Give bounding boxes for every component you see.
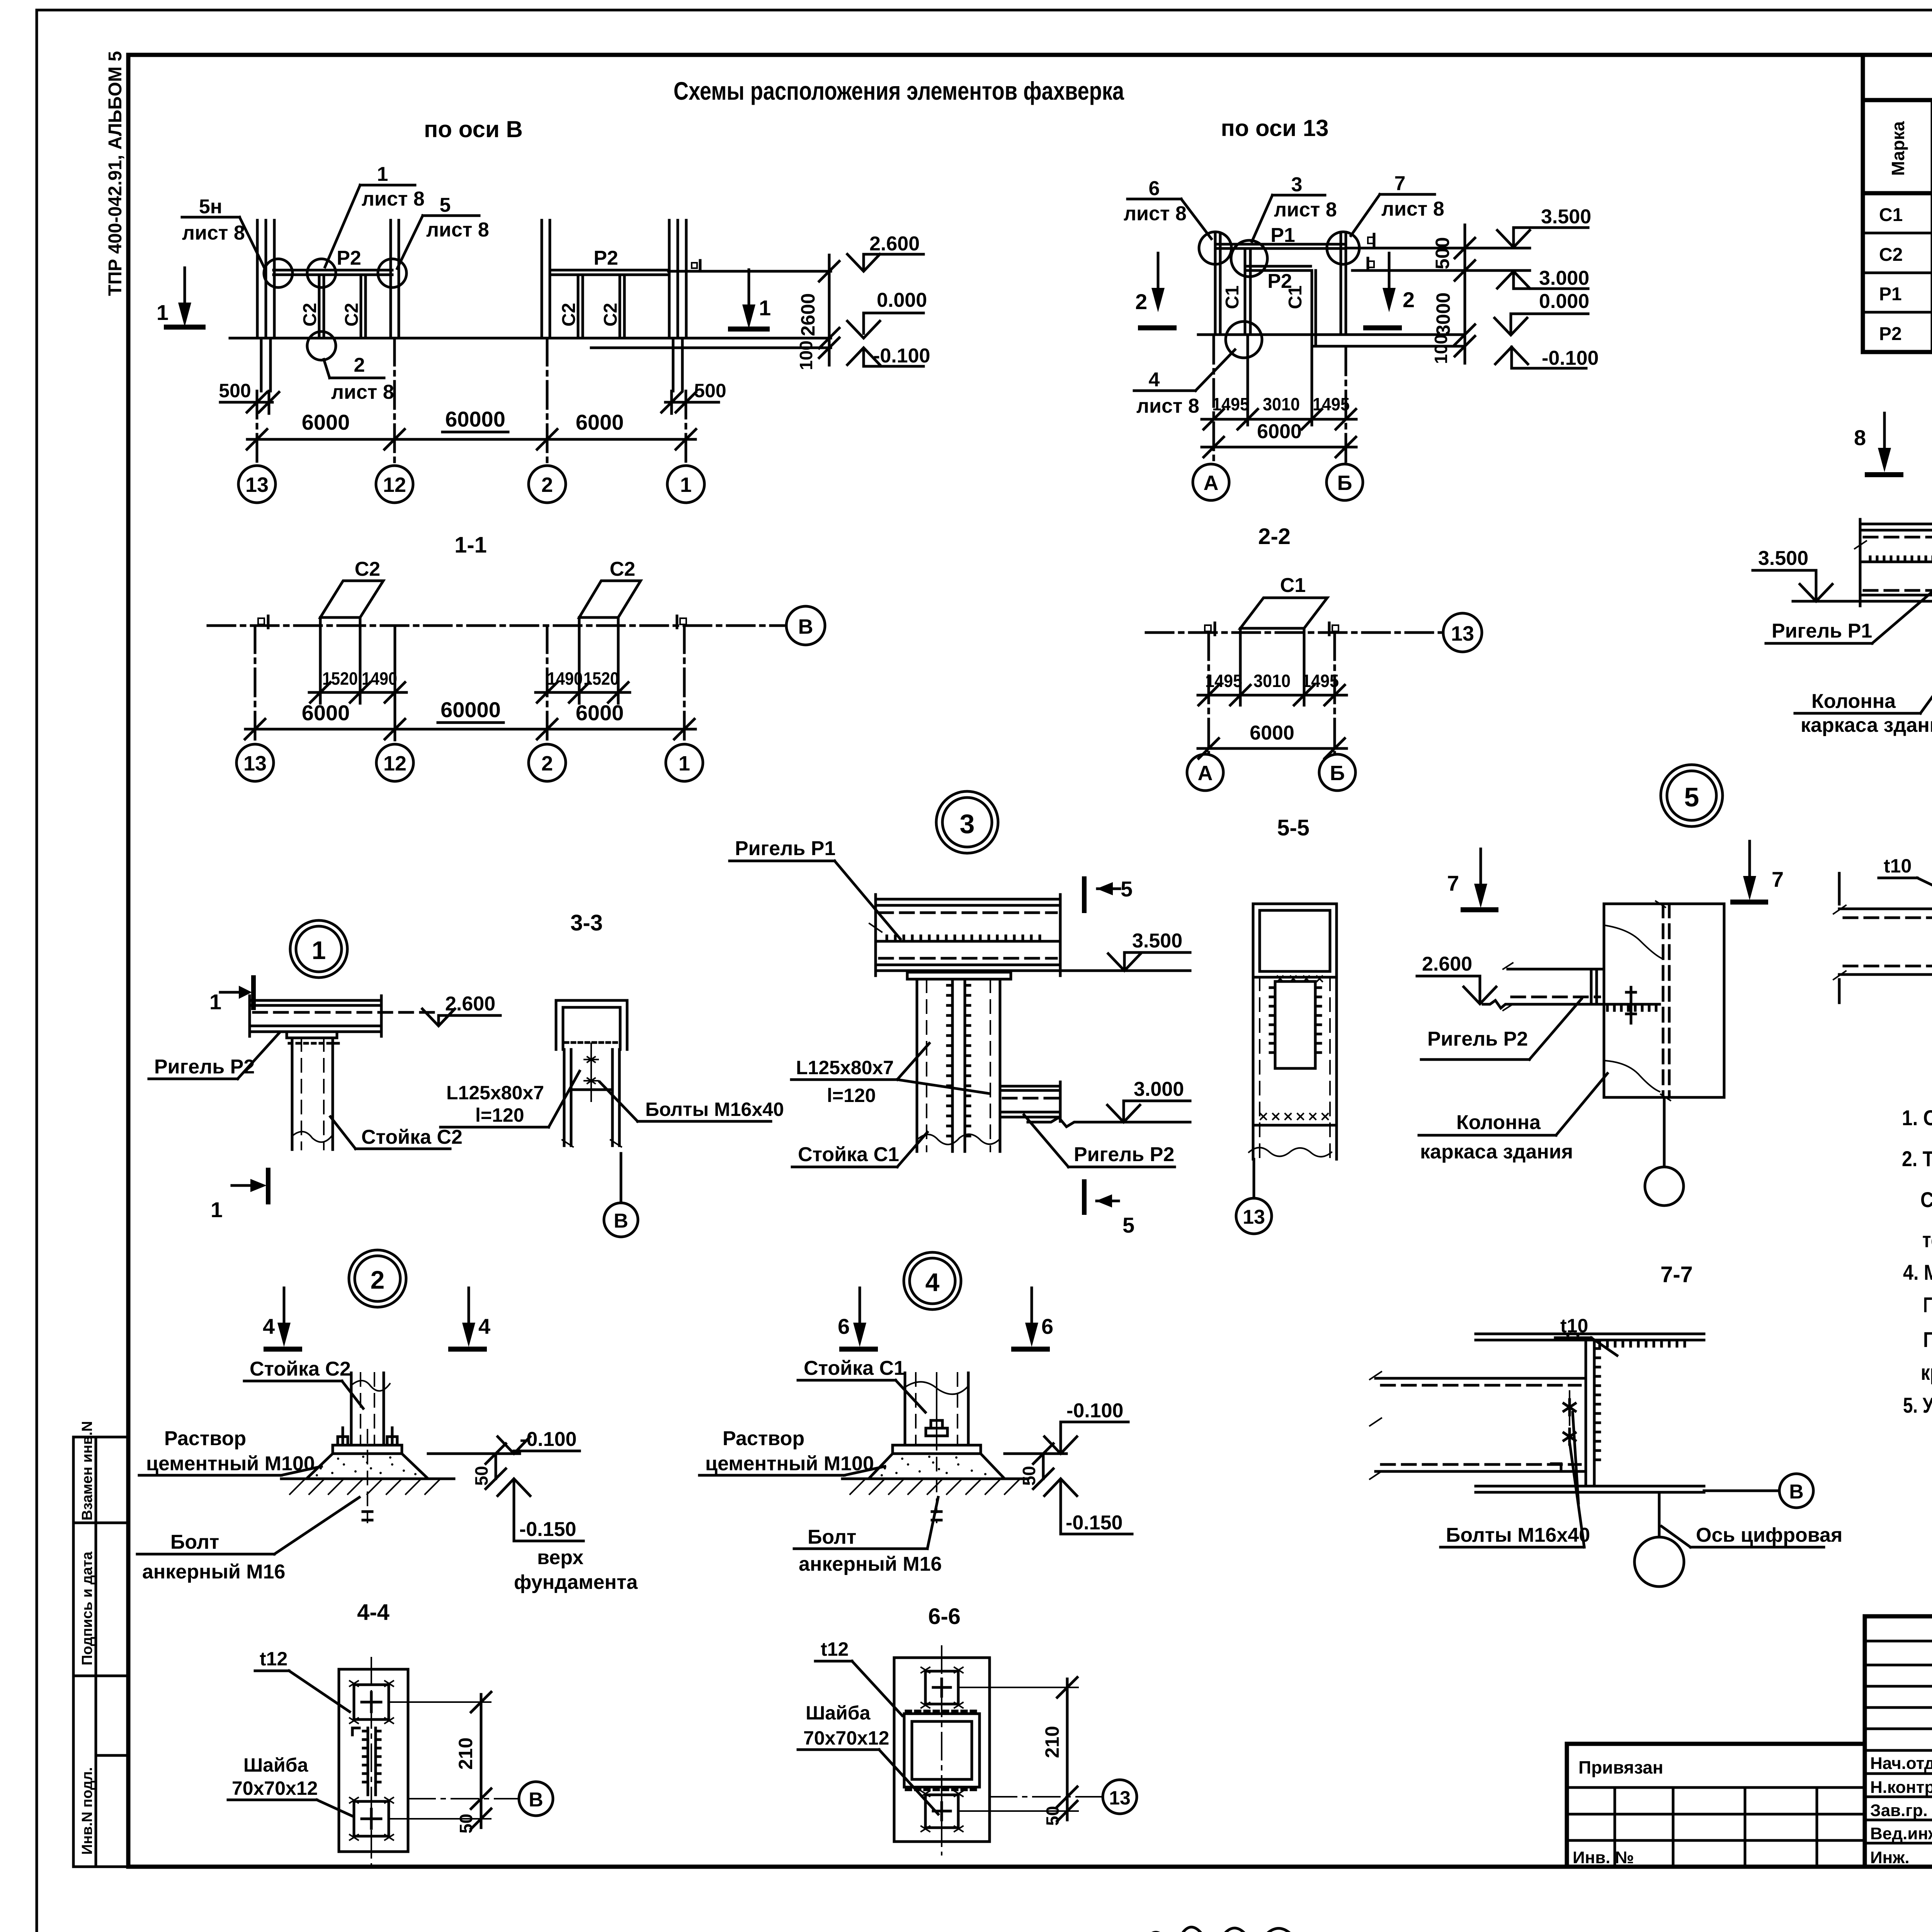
svg-text:Инв. №: Инв. № [1573,1848,1634,1867]
svg-text:4: 4 [1149,369,1160,391]
svg-text:50: 50 [456,1814,476,1833]
inner right post [1311,270,1313,345]
I post top flange [1476,1333,1704,1335]
section mark 5 bottom [1082,1179,1087,1215]
svg-text:70х70х12: 70х70х12 [803,1727,889,1749]
svg-text:13: 13 [1451,622,1474,645]
svg-text:Р2: Р2 [337,247,361,269]
svg-text:1: 1 [211,1197,223,1222]
svg-text:6000: 6000 [1250,722,1294,744]
level 3.500 line [1346,247,1530,250]
svg-text:12: 12 [383,473,406,497]
axis circle 13 [238,466,276,503]
vertical dims 500 3000 100 [1464,225,1466,363]
axis drop lines [1213,336,1215,464]
node circle 5 [1661,765,1723,827]
svg-text:лист 8: лист 8 [331,381,394,403]
svg-text:t12: t12 [260,1648,287,1670]
svg-text:5: 5 [440,194,451,216]
axis dashed drops [256,391,259,466]
svg-text:Стойка С1 и ригель Р1 выполняю: Стойка С1 и ригель Р1 выполняются сварко… [1920,1187,1932,1212]
left margin stamp box Inv.N podl. [73,1676,128,1867]
C2 parallelogram right [579,581,641,617]
svg-text:100: 100 [1431,334,1451,364]
axis circle 13 [1253,1159,1255,1198]
svg-text:лист 8: лист 8 [1136,395,1199,417]
svg-text:Р2: Р2 [1879,324,1902,344]
svg-text:Подпись и дата: Подпись и дата [79,1551,95,1665]
svg-text:Привязан: Привязан [1578,1757,1663,1777]
svg-text:60000: 60000 [440,697,501,722]
axis line [208,624,784,627]
post at axis B [1340,234,1342,335]
mortar pad [869,1454,1005,1479]
digital axis circle [1658,1492,1661,1536]
inner gusset box [1275,981,1315,1068]
ground line [1198,333,1465,336]
axis circle 1 [667,466,704,503]
axis line [1146,631,1440,634]
svg-text:7-7: 7-7 [1660,1262,1693,1287]
dim row 1495 3010 1495 [1198,694,1347,697]
left margin stamp box Podpis i data [73,1523,128,1676]
post at axis 13 [256,220,259,338]
washer top [925,1671,958,1704]
svg-text:1495: 1495 [1302,671,1339,691]
building column [1604,904,1724,1097]
post at axis 12 [389,220,392,338]
svg-text:Раствор: Раствор [164,1427,246,1450]
svg-text:4: 4 [263,1314,275,1338]
svg-text:толщиной 6 мм.Сварку производи: толщиной 6 мм.Сварку производить электро… [1922,1228,1932,1252]
svg-text:Болты М16х40: Болты М16х40 [1446,1524,1590,1546]
beam R2 stub right [1000,1085,1060,1088]
svg-text:Зав.гр.: Зав.гр. [1870,1801,1928,1820]
svg-text:2: 2 [541,473,553,497]
svg-text:3.000: 3.000 [1539,267,1589,289]
ground line 0.000 [230,337,831,340]
web plates below [563,1049,566,1146]
svg-text:5н: 5н [199,196,222,218]
svg-text:каркаса здания: каркаса здания [1420,1141,1573,1163]
dim row 6000 60000 6000 [245,728,696,731]
beam R1 [1860,523,1932,526]
svg-text:С1: С1 [1280,574,1306,597]
svg-text:5-5: 5-5 [1277,815,1310,840]
axis circle V [620,1153,622,1203]
minus line [1312,345,1465,348]
callout circle node 1 [307,259,336,287]
svg-text:3010: 3010 [1253,671,1291,691]
svg-text:Инв.N подл.: Инв.N подл. [79,1767,95,1855]
bottom weld x row [1260,1114,1328,1119]
extension lines [319,617,322,703]
channel beam from left [1376,1377,1586,1380]
svg-text:5: 5 [1121,877,1133,901]
weld combs [1600,1340,1685,1346]
beam R2 [1508,968,1604,971]
svg-text:Р1: Р1 [1270,224,1295,247]
svg-text:Ось цифровая: Ось цифровая [1696,1524,1842,1546]
svg-text:50: 50 [1043,1806,1063,1826]
C1 parallelogram [1240,598,1327,628]
stanchion C2 a [318,275,321,338]
svg-text:2: 2 [371,1265,385,1294]
svg-text:лист 8: лист 8 [1124,202,1187,225]
svg-text:цементный М100: цементный М100 [146,1452,315,1475]
callout circle 3 [1231,240,1267,277]
svg-text:Гайки М16 класса прочности 5 п: Гайки М16 класса прочности 5 по ГОСТ 175… [1923,1327,1932,1352]
section mark 1 bottom [266,1168,270,1204]
title block outer [1865,1616,1932,1867]
svg-text:7: 7 [1772,867,1784,891]
svg-text:6: 6 [1041,1314,1053,1338]
svg-text:L125х80х7: L125х80х7 [796,1057,894,1078]
weld comb under beam [1607,1004,1656,1010]
washer top [354,1685,389,1719]
svg-text:1495: 1495 [1205,671,1242,691]
dim row 1495 3010 1495 [1202,418,1356,421]
svg-text:В: В [614,1210,628,1232]
svg-text:Болты М16х40: Болты М16х40 [645,1099,784,1120]
dim row 6000 [1198,747,1347,750]
ground line with hatch [281,1478,454,1480]
extension lines [1239,628,1242,705]
beam P2 [1248,265,1311,268]
node circle 2 [349,1250,406,1307]
center axis [941,1646,942,1855]
svg-text:1: 1 [312,936,326,964]
svg-text:Нач.отд.: Нач.отд. [1870,1754,1932,1773]
svg-text:лист 8: лист 8 [1274,199,1337,221]
svg-text:-0.100: -0.100 [1066,1400,1123,1422]
section mark 5 top [1082,876,1087,913]
signature names [1870,1754,1932,1867]
end post symbol right [680,618,686,624]
bolts [1569,1391,1570,1454]
axis circle 12 [376,744,413,781]
anchor bolts nuts [338,1437,348,1445]
left grid rows [1865,1640,1932,1643]
svg-text:3.500: 3.500 [1132,930,1182,952]
svg-text:1: 1 [156,300,168,325]
svg-text:В: В [798,615,813,638]
axis circle V [1704,1490,1779,1492]
svg-text:5: 5 [1684,782,1699,812]
svg-text:Болт: Болт [170,1531,219,1553]
svg-text:8: 8 [1854,425,1866,450]
svg-text:Инж.: Инж. [1870,1848,1910,1867]
svg-text:t10: t10 [1884,855,1912,877]
beam P2 right [551,269,668,272]
svg-text:Болт: Болт [808,1526,856,1548]
svg-text:С1: С1 [1222,286,1243,309]
svg-text:С2: С2 [559,303,579,327]
beam P2 left [274,269,392,272]
svg-text:лист 8: лист 8 [426,219,489,241]
svg-text:ГОСТ 7798-70* класса прочности: ГОСТ 7798-70* класса прочности 5.6 по ГО… [1923,1293,1932,1317]
svg-text:4-4: 4-4 [357,1600,389,1625]
svg-text:В: В [1789,1481,1804,1503]
svg-text:Н.контр.: Н.контр. [1870,1778,1932,1797]
web [1585,1340,1587,1486]
svg-text:1490: 1490 [362,668,397,689]
middle gusset plate [367,1728,369,1795]
lower walls [1252,977,1255,1159]
beam P1 [1218,243,1346,246]
svg-text:1: 1 [759,296,771,320]
svg-text:1495: 1495 [1212,394,1249,414]
dim row 1490 1520 right [536,691,630,694]
svg-text:70х70х12: 70х70х12 [232,1777,318,1799]
svg-text:3.000: 3.000 [1134,1078,1184,1100]
axis circle A [1193,464,1229,500]
svg-text:t12: t12 [821,1638,849,1660]
dims 210 50 [958,1687,1078,1688]
svg-text:13: 13 [1109,1787,1131,1809]
dim 50 [495,1454,497,1479]
main dim row 6000 60000 6000 [247,438,696,441]
ground line with hatch [842,1478,1028,1480]
svg-text:500: 500 [219,380,251,401]
svg-text:А: А [1204,471,1219,495]
stanchion C2 b [360,275,362,338]
svg-text:L125x80x7: L125x80x7 [446,1082,544,1104]
mortar pad [306,1454,428,1479]
left margin stamp box Vzamen inv.N [73,1421,128,1523]
svg-text:210: 210 [1041,1726,1063,1758]
svg-text:-0.100: -0.100 [1542,347,1599,369]
dim row 6000 [1202,446,1356,449]
callout circle node 2 [307,332,336,360]
svg-text:Б: Б [1337,471,1352,495]
svg-text:1490: 1490 [547,668,583,689]
svg-text:Стойка С2: Стойка С2 [361,1126,463,1148]
svg-text:6-6: 6-6 [928,1604,961,1629]
top plate of post [907,972,1011,979]
svg-text:Ригель Р2: Ригель Р2 [1074,1143,1174,1166]
table header bottom line [1863,191,1932,196]
stanchion C2 c [577,275,580,338]
svg-text:3010: 3010 [1263,394,1300,414]
svg-text:7: 7 [1447,871,1459,895]
middle box [904,1714,980,1787]
svg-text:1: 1 [377,163,388,185]
svg-text:5. Указания об антикоррозионно: 5. Указания об антикоррозионной защите э… [1903,1393,1932,1417]
beam R1 [876,898,1060,901]
axis circle 12 [376,466,413,503]
callout circle 7 [1327,232,1359,264]
svg-text:1520: 1520 [583,668,619,689]
axis circle V [786,606,825,645]
svg-text:Взамен инв.N: Взамен инв.N [79,1421,95,1520]
svg-text:анкерный М16: анкерный М16 [142,1561,285,1583]
post C2 [291,1038,294,1150]
svg-text:6000: 6000 [302,410,350,434]
svg-text:l=120: l=120 [475,1104,524,1126]
axis circle B [1319,754,1355,791]
svg-text:6000: 6000 [1257,420,1302,443]
svg-text:2-2: 2-2 [1258,524,1291,549]
svg-text:1495: 1495 [1313,394,1350,414]
axis circle 13 [1103,1780,1137,1814]
callout circle node 5 [378,259,406,287]
anchor nuts [926,1428,947,1436]
svg-text:С2: С2 [1879,245,1903,265]
svg-text:3: 3 [960,809,975,839]
post at axis 1 [668,220,671,338]
svg-text:210: 210 [455,1738,476,1770]
axis circle 2 [529,466,566,503]
post C1 [916,979,918,1151]
svg-text:1520: 1520 [322,668,358,689]
svg-text:2.600: 2.600 [869,233,920,255]
node circle 3 [936,791,998,853]
post C1 [904,1373,906,1445]
svg-text:3000: 3000 [1432,293,1454,335]
svg-text:5: 5 [1122,1213,1134,1237]
privyazan box [1567,1744,1865,1867]
post at axis A [1214,234,1217,335]
svg-text:-0.100: -0.100 [873,345,930,367]
anchor bolt axis [367,1430,368,1522]
svg-text:2: 2 [1135,289,1147,314]
svg-text:0.000: 0.000 [877,289,927,311]
svg-text:Стойка С2: Стойка С2 [250,1358,351,1380]
svg-text:500: 500 [694,380,726,401]
anchor bolt axis [936,1437,937,1522]
svg-text:Марка: Марка [1888,121,1908,176]
base plate [333,1445,402,1454]
svg-text:500: 500 [1432,237,1453,269]
dims 210 50 [389,1701,491,1703]
plate outline [339,1669,408,1852]
svg-text:3.500: 3.500 [1758,547,1808,570]
svg-text:по оси 13: по оси 13 [1221,115,1328,141]
svg-text:12: 12 [383,752,406,775]
node circle 4 [904,1252,961,1310]
svg-text:60000: 60000 [445,407,505,431]
svg-text:1: 1 [679,752,690,775]
svg-text:Р2: Р2 [594,247,618,269]
svg-text:l=120: l=120 [827,1085,876,1106]
svg-text:цементный М100: цементный М100 [705,1452,874,1475]
svg-text:6000: 6000 [302,701,350,725]
svg-text:Стойка С1: Стойка С1 [798,1143,899,1166]
bottom flange [1476,1485,1704,1488]
svg-text:Р2: Р2 [1267,270,1292,293]
beam R2 [250,999,381,1002]
svg-text:6000: 6000 [576,701,624,725]
svg-text:С2: С2 [610,558,635,580]
svg-text:2: 2 [541,752,553,775]
svg-text:13: 13 [243,752,267,775]
svg-text:2: 2 [354,354,365,376]
svg-text:фундамента: фундамента [514,1571,638,1594]
svg-text:6: 6 [1149,177,1160,200]
svg-text:2.600: 2.600 [1422,953,1472,975]
svg-text:1-1: 1-1 [454,532,487,558]
svg-text:3-3: 3-3 [570,910,603,935]
svg-text:-0.150: -0.150 [519,1518,576,1541]
callout circle 4 [1226,321,1262,358]
svg-text:2. Техническую спецификацию ме: 2. Техническую спецификацию металла см. … [1902,1146,1932,1171]
dim 50 [1042,1454,1045,1479]
channel beam from left [1839,908,1932,910]
svg-text:0.000: 0.000 [1539,290,1589,313]
svg-text:С1: С1 [1879,205,1903,225]
table outer box [1863,55,1932,352]
svg-text:Колонна: Колонна [1811,690,1896,713]
svg-text:С2: С2 [600,303,621,327]
svg-text:4: 4 [925,1268,940,1296]
plate outline [894,1658,990,1842]
axis circle A [1187,754,1223,791]
channel C2 top [556,1000,627,1049]
callout circle node 5n [264,259,293,287]
svg-text:4: 4 [478,1314,490,1338]
svg-text:7: 7 [1395,172,1406,195]
svg-text:лист 8: лист 8 [1381,198,1444,220]
small stub symbols [1368,237,1374,243]
svg-text:2600: 2600 [797,293,819,336]
svg-text:Вед.инж.: Вед.инж. [1870,1824,1932,1843]
top closed box [1253,904,1337,977]
svg-text:1: 1 [680,473,692,497]
axis circle 1 [666,744,703,781]
svg-text:Схемы расположения элементов ф: Схемы расположения элементов фахверка [673,77,1124,105]
axis drop circle [1663,1097,1666,1167]
svg-text:С2: С2 [300,303,320,327]
svg-text:6000: 6000 [576,410,624,434]
stanchion C2 d [619,275,621,338]
svg-text:Ригель Р1: Ригель Р1 [735,837,835,860]
table column lines [1931,100,1932,352]
washer bottom [925,1795,958,1828]
svg-text:100: 100 [796,340,816,370]
svg-text:С2: С2 [355,558,380,580]
svg-text:А: А [1198,762,1213,785]
end post symbol left [1205,625,1211,631]
node circle 1 [290,920,347,978]
post at axis 2 [541,220,543,338]
line -0.100 [591,347,831,349]
svg-text:3: 3 [1291,173,1303,196]
svg-text:50: 50 [1019,1466,1039,1486]
axis circle 13 [236,744,274,781]
svg-text:3.500: 3.500 [1541,206,1591,228]
svg-text:t10: t10 [1560,1315,1588,1337]
end post symbol right [1332,625,1338,631]
level line 2.600 extension [668,270,831,273]
bottom break [1249,1148,1332,1157]
svg-text:6: 6 [838,1314,850,1338]
dim row 1520 1490 left [309,691,406,694]
svg-text:Ригель Р2: Ригель Р2 [1427,1028,1528,1050]
post C2 [350,1373,353,1445]
svg-text:В: В [529,1789,543,1811]
svg-text:ТПР 400-042.91, АЛЬБОМ 5: ТПР 400-042.91, АЛЬБОМ 5 [105,51,126,296]
svg-text:-0.150: -0.150 [1066,1512,1122,1534]
center axis [371,1658,372,1864]
support plate [287,1032,337,1038]
vertical dim 2600/100 [828,255,831,365]
svg-text:верх: верх [537,1546,583,1569]
end post symbol left [258,618,264,624]
svg-text:кручивания под гайку установит: кручивания под гайку установить одну пру… [1921,1360,1932,1384]
svg-text:Ригель Р1: Ригель Р1 [1772,620,1872,642]
gusset with bolts [571,1088,612,1091]
